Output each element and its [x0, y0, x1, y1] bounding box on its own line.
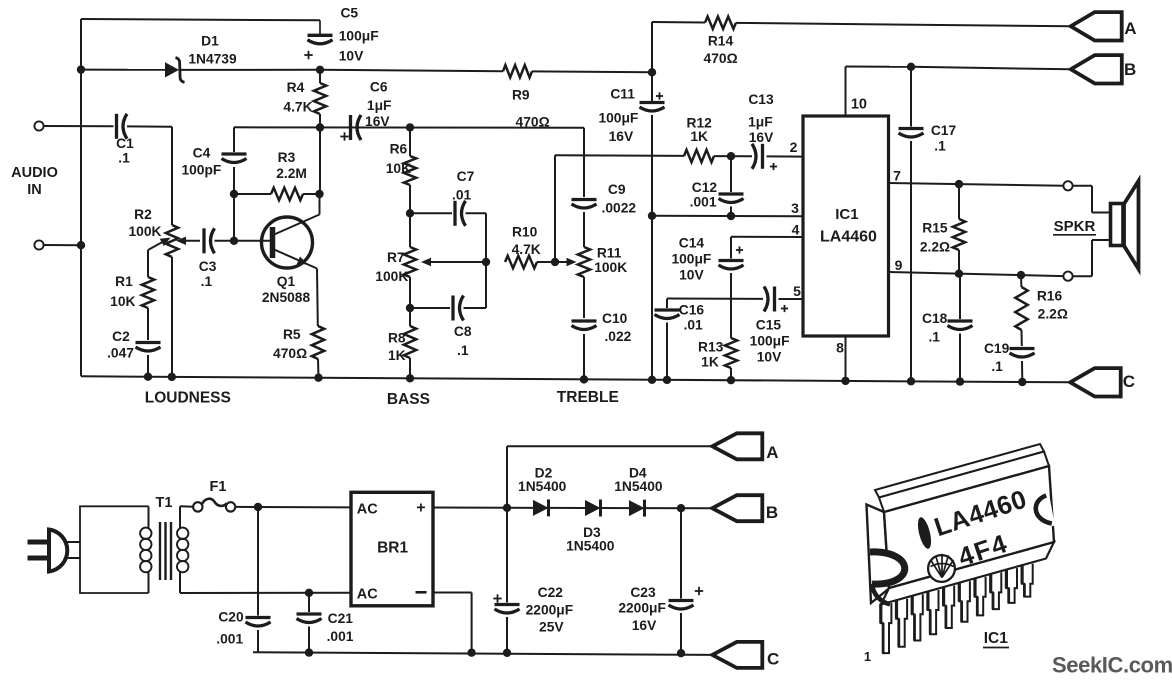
transistor Q1 2N5088	[262, 217, 313, 268]
wire C13 to pin2	[767, 155, 804, 157]
svg-text:B: B	[1124, 60, 1136, 79]
R7 wiper arrow	[429, 261, 486, 263]
node junction R8/rail	[406, 374, 414, 382]
capacitor C5 100uF	[319, 20, 321, 34]
svg-text:100μF: 100μF	[598, 110, 638, 125]
IC1 package left notch	[870, 552, 905, 584]
svg-text:C22: C22	[538, 585, 564, 600]
svg-text:C21: C21	[328, 611, 354, 626]
resistor R5 470ohm	[316, 269, 319, 327]
svg-text:3: 3	[791, 200, 799, 216]
capacitor C2 .047	[136, 341, 161, 344]
resistor R9 470ohm	[320, 70, 503, 71]
svg-text:R10: R10	[512, 224, 538, 239]
svg-text:.001: .001	[690, 195, 717, 210]
svg-text:10: 10	[851, 97, 867, 113]
svg-text:R6: R6	[390, 142, 408, 157]
svg-text:.01: .01	[684, 317, 704, 332]
capacitor C17 .1	[910, 67, 912, 127]
resistor R12 1K	[684, 150, 714, 162]
capacitor C3 .1	[202, 228, 205, 253]
op-amp IC1 LA4460	[803, 116, 889, 336]
svg-text:2N5088: 2N5088	[262, 290, 311, 305]
svg-text:C11: C11	[610, 87, 635, 102]
potentiometer R7 100K	[404, 247, 416, 277]
wire primary loop	[80, 506, 149, 593]
svg-text:1N5400: 1N5400	[518, 479, 567, 494]
svg-text:4.7K: 4.7K	[283, 100, 312, 115]
svg-text:10V: 10V	[339, 48, 364, 63]
svg-text:C8: C8	[454, 324, 472, 339]
wire secondary bottom to BR1	[180, 592, 351, 594]
R2 wiper arrow from C3	[181, 240, 200, 242]
svg-text:470Ω: 470Ω	[704, 51, 738, 66]
node junction C6/R6	[406, 123, 414, 131]
svg-text:R13: R13	[698, 340, 724, 355]
node junction C19/rail	[1018, 378, 1026, 386]
svg-text:7: 7	[893, 168, 901, 184]
wire C7 right	[466, 212, 487, 214]
node junction R9/C11	[648, 68, 656, 76]
wire branch to A	[506, 446, 508, 508]
connector arrow C lower	[712, 642, 762, 668]
diode D2 1N5400	[533, 500, 549, 516]
node junction pin7/R15	[955, 180, 963, 188]
connector arrow C upper	[1070, 368, 1121, 396]
resistor R10 4.7K	[505, 256, 537, 268]
capacitor C12 .001	[730, 156, 732, 192]
node junction C18/rail	[956, 377, 964, 385]
node junction R12/C12	[727, 152, 735, 160]
svg-text:BASS: BASS	[387, 391, 430, 408]
svg-text:C: C	[1123, 372, 1135, 391]
svg-text:BR1: BR1	[377, 540, 408, 557]
diode D1 (zener 1N4739)	[165, 62, 179, 77]
potentiometer R2 100K	[166, 225, 178, 257]
svg-text:AC: AC	[357, 502, 378, 518]
wire speaker top	[1073, 185, 1092, 187]
svg-text:AUDIO: AUDIO	[11, 165, 58, 181]
svg-text:100K: 100K	[375, 269, 408, 284]
svg-text:D1: D1	[201, 34, 219, 49]
wire pin2 line	[555, 154, 684, 157]
node junction R2/rail	[168, 373, 176, 381]
wire pin3 line	[652, 215, 803, 217]
svg-text:Q1: Q1	[277, 274, 296, 289]
capacitor C23 2200uF	[680, 508, 682, 598]
node junction minus/rail	[467, 649, 475, 657]
svg-text:.1: .1	[934, 139, 946, 154]
transformer T1 core	[159, 522, 161, 580]
svg-text:1μF: 1μF	[367, 98, 392, 113]
diode D3 1N5400	[585, 500, 601, 516]
connector arrow A lower	[712, 433, 762, 459]
svg-text:.1: .1	[928, 330, 940, 345]
wire C15 to pin5	[779, 298, 804, 300]
node junction fuse/C20	[254, 503, 262, 511]
svg-text:B: B	[766, 503, 778, 522]
capacitor C10 .022	[572, 319, 597, 322]
svg-text:R8: R8	[388, 330, 406, 345]
svg-text:100K: 100K	[594, 260, 627, 275]
svg-text:1μF: 1μF	[748, 114, 773, 129]
wire D3-D4	[602, 507, 629, 509]
capacitor C6 1uF	[349, 115, 352, 140]
terminal audio in bottom	[34, 240, 43, 249]
svg-text:.1: .1	[457, 343, 469, 358]
resistor R1 10K	[147, 250, 149, 277]
wire left bus vertical	[80, 19, 82, 376]
wire treble up	[554, 155, 556, 262]
svg-text:2200μF: 2200μF	[618, 601, 666, 616]
svg-text:.001: .001	[327, 629, 354, 644]
IC1 package logo	[928, 555, 955, 582]
wire BR1 minus out	[433, 592, 472, 594]
resistor R14 470ohm	[652, 21, 705, 24]
potentiometer R11 100K	[578, 247, 590, 277]
R2 loudness tap arrow	[148, 240, 167, 250]
wire pin7 line	[889, 183, 1064, 186]
svg-text:1K: 1K	[690, 129, 708, 144]
wire power ground rail	[253, 652, 712, 655]
wire speaker bottom	[1073, 275, 1092, 277]
svg-text:C12: C12	[692, 180, 718, 195]
svg-text:C10: C10	[602, 311, 628, 326]
svg-text:TREBLE: TREBLE	[557, 389, 619, 406]
node junction C16/rail	[663, 376, 671, 384]
svg-text:C9: C9	[608, 182, 626, 197]
svg-text:C23: C23	[630, 585, 656, 600]
node junction pin9/R15	[955, 270, 963, 278]
capacitor C18 .1	[959, 274, 961, 319]
svg-text:10K: 10K	[110, 294, 135, 309]
svg-text:10K: 10K	[386, 161, 411, 176]
wire BR1 plus out	[433, 507, 507, 509]
terminal speaker bottom	[1063, 272, 1072, 281]
svg-text:C19: C19	[984, 341, 1010, 356]
svg-text:.022: .022	[604, 329, 631, 344]
node junction bus/input-low	[77, 241, 85, 249]
wire fuse to BR1	[235, 506, 351, 509]
IC1 package right notch	[1047, 494, 1053, 526]
node junction C23/rail	[677, 649, 685, 657]
wire B line	[846, 66, 912, 68]
wire ground rail	[81, 376, 1070, 382]
svg-text:2: 2	[790, 139, 798, 155]
connector arrow A upper	[1071, 12, 1122, 40]
svg-text:1: 1	[864, 649, 871, 664]
node junction D1 left	[77, 65, 85, 73]
svg-text:C6: C6	[370, 80, 388, 95]
svg-text:C15: C15	[756, 317, 782, 332]
svg-text:R14: R14	[708, 33, 734, 48]
svg-text:470Ω: 470Ω	[273, 346, 307, 361]
svg-text:C13: C13	[748, 92, 774, 107]
wire collector vertical	[319, 128, 321, 195]
svg-text:100μF: 100μF	[671, 252, 711, 267]
svg-text:R15: R15	[922, 221, 948, 236]
svg-text:C: C	[767, 650, 779, 669]
svg-text:.001: .001	[216, 632, 243, 647]
svg-text:SeekIC.com: SeekIC.com	[1052, 653, 1172, 678]
svg-text:IC1: IC1	[984, 630, 1009, 647]
node junction C12/pin3	[727, 212, 735, 220]
wire bus to rail	[651, 216, 653, 380]
resistor R6 10K	[409, 127, 411, 156]
IC1 package body	[867, 505, 890, 604]
svg-text:.1: .1	[118, 151, 130, 166]
node junction R10/treble	[551, 258, 559, 266]
svg-text:C16: C16	[679, 303, 705, 318]
svg-text:LA4460: LA4460	[820, 229, 877, 246]
capacitor C14 100uF	[730, 237, 732, 259]
node junction B/C17	[907, 63, 915, 71]
connector arrow B upper	[1071, 55, 1122, 83]
wire pin9 line	[889, 272, 1064, 276]
svg-text:T1: T1	[156, 495, 173, 511]
node junction C5/R4/D1	[316, 66, 324, 74]
svg-text:C4: C4	[193, 145, 211, 160]
wire C4 node down	[233, 194, 235, 241]
wire A-line corner	[651, 22, 653, 72]
svg-text:16V: 16V	[365, 114, 390, 129]
svg-text:SPKR: SPKR	[1054, 218, 1096, 235]
wire input bottom to bus	[44, 244, 81, 246]
wire C3 to base node	[215, 240, 235, 242]
wire C9 to R11	[583, 212, 585, 247]
wire top rail to C5	[81, 19, 320, 20]
svg-text:1K: 1K	[701, 355, 719, 370]
node junction R7/C8	[406, 304, 414, 312]
svg-text:4.7K: 4.7K	[512, 242, 541, 257]
svg-text:LOUDNESS: LOUDNESS	[145, 389, 231, 406]
pin 8 wire	[845, 336, 847, 381]
capacitor C21 .001	[308, 593, 310, 612]
plug AC	[49, 530, 67, 572]
node junction C10/rail	[580, 375, 588, 383]
svg-text:.01: .01	[452, 187, 472, 202]
node junction R5/rail	[314, 374, 322, 382]
capacitor C7 .01	[453, 201, 456, 226]
svg-text:1N5400: 1N5400	[614, 479, 663, 494]
svg-text:C3: C3	[199, 259, 217, 274]
svg-text:25V: 25V	[539, 620, 564, 635]
node junction C22/rail	[503, 649, 511, 657]
node junction pin3	[648, 212, 656, 220]
wire D2-D3	[550, 507, 585, 509]
svg-text:C7: C7	[457, 169, 475, 184]
svg-text:R2: R2	[134, 207, 152, 222]
svg-text:R7: R7	[387, 250, 405, 265]
wire C8 left	[410, 307, 450, 309]
terminal audio in top	[34, 121, 43, 130]
wire D1 anode from bus	[81, 69, 165, 71]
node junction C17/rail	[907, 377, 915, 385]
svg-text:2.2Ω: 2.2Ω	[920, 240, 950, 255]
svg-text:C18: C18	[922, 311, 948, 326]
node junction x652/rail	[648, 376, 656, 384]
resistor R4 4.7K	[319, 70, 321, 83]
node junction C21 top	[305, 589, 313, 597]
svg-text:.1: .1	[991, 359, 1003, 374]
svg-text:C5: C5	[340, 6, 358, 21]
svg-text:100pF: 100pF	[181, 163, 221, 178]
node junction C21/rail	[305, 648, 313, 656]
wire input top to C1	[44, 125, 114, 127]
resistor R15 2.2ohm	[958, 184, 960, 219]
node junction pin9/R16	[1017, 271, 1025, 279]
wire D2 anode	[507, 507, 533, 509]
svg-text:+: +	[416, 500, 425, 517]
svg-text:.0022: .0022	[602, 201, 637, 216]
svg-text:.047: .047	[107, 346, 134, 361]
svg-text:C14: C14	[679, 235, 705, 250]
svg-text:C2: C2	[112, 329, 130, 344]
svg-text:.1: .1	[201, 274, 213, 289]
fuse F1	[193, 502, 202, 511]
connector arrow B lower	[712, 495, 762, 521]
wire secondary top to fuse	[180, 505, 194, 508]
svg-text:1N5400: 1N5400	[566, 539, 615, 554]
node junction R4/C6	[316, 123, 324, 131]
node junction C4/R3	[230, 190, 238, 198]
node junction base/C4	[230, 237, 238, 245]
node junction R7 wiper/C7C8	[482, 258, 490, 266]
svg-text:R1: R1	[115, 274, 133, 289]
svg-text:R11: R11	[597, 246, 622, 261]
capacitor C9 .0022	[583, 128, 585, 197]
terminal speaker top	[1063, 181, 1072, 190]
capacitor C16 .01	[666, 299, 668, 309]
capacitor C4 100pF	[233, 127, 235, 152]
node junction pin8/rail	[841, 377, 849, 385]
wire y128 line	[234, 126, 584, 128]
svg-text:IC1: IC1	[835, 206, 858, 223]
node junction R3/collector	[315, 190, 323, 198]
transformer T1 primary	[148, 506, 150, 528]
capacitor C22 2200uF	[506, 508, 508, 603]
node junction D4/C23	[677, 504, 685, 512]
svg-text:16V: 16V	[749, 130, 774, 145]
resistor R8 1K	[409, 308, 411, 326]
node junction R6/C7	[406, 209, 414, 217]
svg-text:5: 5	[793, 283, 801, 299]
svg-text:A: A	[766, 443, 778, 462]
svg-text:8: 8	[836, 340, 844, 356]
svg-text:R3: R3	[278, 150, 296, 165]
wire C1 to R2 top	[127, 125, 172, 127]
svg-text:R16: R16	[1037, 289, 1063, 304]
capacitor C20 .001	[257, 507, 259, 616]
capacitor C15 100uF	[773, 287, 776, 312]
speaker SPKR	[1111, 204, 1124, 246]
IC1 package index mark	[915, 516, 933, 550]
resistor R16 2.2ohm	[1020, 275, 1022, 287]
svg-text:100K: 100K	[129, 224, 162, 239]
svg-text:R4: R4	[287, 80, 305, 95]
svg-text:1N4739: 1N4739	[188, 52, 237, 67]
capacitor C13 1uF	[761, 144, 764, 169]
resistor R13 1K	[725, 338, 737, 368]
wire pin4 line	[731, 236, 803, 238]
transformer T1 secondary	[179, 506, 181, 528]
svg-text:IN: IN	[27, 182, 42, 198]
svg-text:C17: C17	[931, 123, 957, 138]
svg-text:9: 9	[895, 257, 903, 273]
diode D4 1N5400	[629, 500, 645, 516]
svg-text:A: A	[1124, 19, 1136, 38]
svg-text:R9: R9	[512, 88, 530, 103]
capacitor C19 .1	[1010, 347, 1035, 350]
svg-text:C1: C1	[116, 136, 134, 151]
svg-text:16V: 16V	[632, 618, 657, 633]
svg-text:100μF: 100μF	[750, 334, 790, 349]
svg-text:100μF: 100μF	[339, 29, 379, 44]
wire C14 to R13	[730, 273, 732, 338]
wire C7 left	[410, 212, 452, 214]
svg-text:R5: R5	[283, 327, 301, 342]
svg-text:10V: 10V	[679, 268, 704, 283]
svg-text:2200μF: 2200μF	[526, 602, 574, 617]
node junction C2/rail	[144, 373, 152, 381]
node junction R13/rail	[727, 376, 735, 384]
wire base node to Q1	[234, 240, 271, 242]
wire plug stubs	[67, 541, 81, 543]
svg-text:4: 4	[792, 222, 800, 238]
capacitor C11 100uF	[651, 72, 653, 101]
svg-text:C20: C20	[218, 610, 244, 625]
R11 wiper arrow	[555, 261, 567, 263]
rectifier BR1	[351, 492, 433, 606]
wire C8 right	[464, 307, 487, 309]
svg-text:10V: 10V	[757, 350, 782, 365]
wire pin5 line	[667, 298, 763, 300]
pin 10 wire	[845, 67, 847, 117]
svg-text:2.2Ω: 2.2Ω	[1038, 307, 1068, 322]
svg-text:2.2M: 2.2M	[276, 166, 307, 181]
resistor R3 2.2M	[234, 193, 271, 195]
svg-text:1K: 1K	[388, 348, 406, 363]
capacitor C1 .1	[115, 114, 118, 139]
wire D1 cathode to C5 node	[180, 69, 320, 71]
IC1 package pins	[881, 603, 892, 653]
svg-text:F1: F1	[210, 479, 227, 495]
capacitor C8 .1	[451, 296, 454, 321]
svg-text:16V: 16V	[609, 129, 634, 144]
node junction plus/C22	[503, 504, 511, 512]
wire D4 to B	[646, 507, 712, 509]
svg-text:AC: AC	[357, 587, 378, 603]
